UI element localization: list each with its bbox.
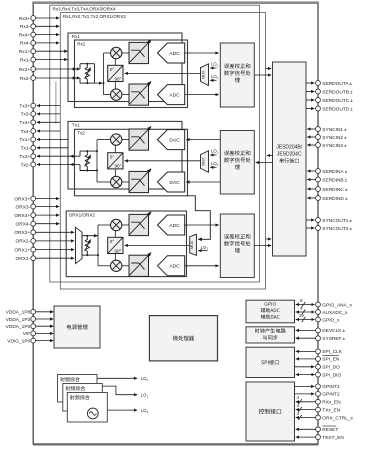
Tx2 variable attenuator bbox=[80, 150, 97, 171]
ORX I tunable filter bbox=[129, 212, 151, 236]
power management box bbox=[54, 306, 100, 348]
pin Rx2+ bbox=[31, 67, 36, 72]
wire Rx2 input jogs bbox=[79, 64, 81, 69]
pin VDDA_1P3 bbox=[31, 317, 36, 322]
pin VDDA_1P0 bbox=[31, 324, 36, 329]
pin SERDOUTD&#8201;&#177; bbox=[316, 106, 321, 111]
svg-text:SERDINA ±: SERDINA ± bbox=[322, 169, 347, 175]
wire ADC ORX Q to DSP bbox=[185, 265, 219, 267]
GPIO / aux ADC / aux DAC box bbox=[246, 300, 295, 323]
wire ADC Rx Q to DSP bbox=[185, 94, 219, 96]
wire LO3 output bbox=[107, 409, 137, 411]
Rx I tunable filter bbox=[129, 40, 151, 64]
pin Rx3+ bbox=[31, 16, 36, 21]
Tx1 channel box bbox=[68, 121, 182, 189]
svg-text:Rx2-: Rx2- bbox=[20, 76, 31, 82]
pin Rx4+ bbox=[31, 32, 36, 37]
SPI interface box bbox=[246, 347, 295, 377]
svg-text:SYNCOUT2 ±: SYNCOUT2 ± bbox=[322, 226, 352, 232]
pin Tx2- bbox=[31, 162, 36, 167]
svg-text:TXx_EN: TXx_EN bbox=[322, 407, 340, 413]
ADC Rx Q bbox=[158, 85, 185, 105]
wire DSP to DAC Tx Q bbox=[186, 181, 220, 183]
wire Tx combine junction bbox=[96, 140, 98, 182]
svg-text:Rx1+: Rx1+ bbox=[19, 49, 31, 55]
svg-text:SPI_CLK: SPI_CLK bbox=[322, 349, 343, 355]
svg-text:0°: 0° bbox=[110, 239, 115, 244]
wire Rx DSP to JESD bbox=[254, 74, 271, 76]
ADC ORX I bbox=[158, 215, 185, 235]
svg-text:ORX4-: ORX4- bbox=[16, 222, 31, 228]
svg-text:GPIO: GPIO bbox=[264, 302, 276, 308]
pin ORX1+ bbox=[31, 247, 36, 252]
pin SYNCIN3&#8201;&#177; bbox=[316, 143, 321, 148]
pin Rx1+ bbox=[31, 49, 36, 54]
DAC Tx I bbox=[158, 130, 185, 150]
svg-text:VIF: VIF bbox=[23, 331, 31, 337]
pin RXx_EN bbox=[316, 399, 321, 404]
wire LO1 output bbox=[102, 386, 137, 395]
wire vertical segment left column bbox=[55, 82, 57, 124]
pin GPIO_ANA_x bbox=[316, 302, 321, 307]
svg-text:Rx2+: Rx2+ bbox=[19, 67, 31, 73]
pin ORX2- bbox=[31, 239, 36, 244]
pin ORX3+ bbox=[31, 196, 36, 201]
pin ORX3- bbox=[31, 204, 36, 209]
pin TEST_EN bbox=[316, 435, 321, 440]
ORX I mixer bbox=[111, 219, 122, 230]
svg-text:SPI_EN: SPI_EN bbox=[322, 357, 340, 363]
wire LO3 into ORX mux bbox=[198, 250, 207, 252]
pin ORX2+ bbox=[31, 230, 36, 235]
pin SERDINC&#8201;&#177; bbox=[316, 187, 321, 192]
svg-text:SYNCOUT1 ±: SYNCOUT1 ± bbox=[322, 218, 352, 224]
svg-text:SPI_DO: SPI_DO bbox=[322, 365, 340, 371]
svg-text:90°: 90° bbox=[115, 164, 122, 169]
pin SERDINA&#8201;&#177; bbox=[316, 169, 321, 174]
svg-text:Rx1: Rx1 bbox=[72, 34, 81, 39]
svg-text:DAC: DAC bbox=[169, 137, 180, 143]
RF synthesizer box 1 bbox=[58, 375, 98, 403]
svg-text:SERDIND ±: SERDIND ± bbox=[322, 196, 348, 202]
pin SYNCOUT1&#8201;&#177; bbox=[316, 218, 321, 223]
wire Tx LO tap to ORX mux bbox=[188, 196, 211, 240]
svg-text:ADC: ADC bbox=[169, 51, 180, 57]
pin Rx4- bbox=[31, 41, 36, 46]
Tx I tunable filter bbox=[129, 126, 151, 150]
ORX variable attenuator bbox=[82, 235, 98, 256]
wire filter to mixer Tx Q bbox=[122, 181, 130, 183]
control interface box bbox=[246, 382, 295, 441]
pin RESET bbox=[316, 427, 321, 432]
svg-text:ORX3-: ORX3- bbox=[16, 204, 31, 210]
pin VDDA_1P8 bbox=[31, 309, 36, 314]
svg-text:SERDINB ±: SERDINB ± bbox=[322, 177, 347, 183]
svg-text:Tx3-: Tx3- bbox=[21, 112, 31, 118]
pin SPI_DIO bbox=[316, 372, 321, 377]
Rx2 variable attenuator bbox=[80, 63, 95, 84]
svg-text:Rx4-: Rx4- bbox=[20, 41, 31, 47]
pin SYNCIN2&#8201;&#177; bbox=[316, 135, 321, 140]
oscillator symbol bbox=[87, 408, 98, 419]
wire quad to Tx mixers bbox=[114, 145, 116, 153]
svg-text:ORX1+: ORX1+ bbox=[14, 247, 30, 253]
ORX input selector mux bbox=[76, 227, 83, 263]
ADC Rx I bbox=[158, 43, 185, 63]
svg-text:SYNCIN3 ±: SYNCIN3 ± bbox=[322, 143, 347, 149]
svg-text:ADC: ADC bbox=[169, 92, 180, 98]
svg-text:Tx2: Tx2 bbox=[77, 131, 85, 136]
svg-text:Rx1,Rx2,Tx1,Tx2,ORX1/ORX2: Rx1,Rx2,Tx1,Tx2,ORX1/ORX2 bbox=[63, 14, 126, 19]
svg-text:Tx1: Tx1 bbox=[72, 123, 80, 128]
svg-text:90°: 90° bbox=[115, 76, 122, 81]
wire Rx DSP to JESD (group) bbox=[266, 68, 272, 70]
svg-text:RESET: RESET bbox=[322, 427, 338, 433]
pin SYSREF&#8201;&#177; bbox=[316, 336, 321, 341]
svg-text:ADC: ADC bbox=[169, 223, 180, 229]
svg-text:VDIG_1P0: VDIG_1P0 bbox=[7, 338, 30, 344]
svg-text:Rx4+: Rx4+ bbox=[19, 32, 31, 38]
pin SPI_CLK bbox=[316, 349, 321, 354]
group box Rx3,Rx4,Tx3,Tx4,ORX3/ORX4 bbox=[50, 5, 260, 282]
svg-text:SERDOUTD ±: SERDOUTD ± bbox=[322, 106, 353, 112]
wire Tx2 output jogs bbox=[79, 151, 81, 156]
pin Tx1+ bbox=[31, 137, 36, 142]
Tx Q mixer bbox=[111, 176, 122, 187]
svg-text:Rx2: Rx2 bbox=[77, 41, 86, 46]
svg-text:19: 19 bbox=[299, 313, 305, 318]
pin GPINT2 bbox=[316, 392, 321, 397]
microprocessor box bbox=[149, 316, 217, 361]
wire ORX DSP to JESD (group) bbox=[266, 238, 272, 240]
svg-text:Tx2+: Tx2+ bbox=[19, 154, 30, 160]
Tx Q tunable filter bbox=[129, 169, 151, 193]
pin VDIG_1P0 bbox=[31, 338, 36, 343]
svg-text:Tx4+: Tx4+ bbox=[19, 120, 30, 126]
svg-text:0°: 0° bbox=[110, 154, 115, 159]
pin ORX1- bbox=[31, 256, 36, 261]
svg-text:VDDA_1P8: VDDA_1P8 bbox=[6, 310, 31, 316]
svg-text:Rx3-: Rx3- bbox=[20, 24, 31, 30]
clock generation and sync box bbox=[246, 327, 295, 343]
svg-text:Tx2-: Tx2- bbox=[21, 162, 31, 168]
wire LO2 output bbox=[97, 377, 137, 379]
svg-text:TEST_EN: TEST_EN bbox=[322, 435, 344, 441]
pin SERDINB&#8201;&#177; bbox=[316, 177, 321, 182]
svg-text:VDDA_1P3: VDDA_1P3 bbox=[6, 317, 31, 323]
svg-text:DAC: DAC bbox=[169, 180, 180, 186]
pin Tx1- bbox=[31, 145, 36, 150]
wire ORX I/Q split junction bbox=[97, 225, 99, 266]
svg-text:ORX2+: ORX2+ bbox=[14, 230, 30, 236]
wire LO2 into Tx mux bbox=[210, 166, 216, 168]
Tx LO mux bbox=[201, 151, 209, 173]
pin DEVCLK&#8201;&#177; bbox=[316, 328, 321, 333]
wire quad to ORX mixers bbox=[114, 230, 116, 237]
DSP block U2: error correction and digital signal processing (Tx) bbox=[220, 131, 254, 195]
Tx I mixer bbox=[111, 134, 122, 145]
pin Rx3- bbox=[31, 24, 36, 29]
ORX 0/90 quadrature splitter bbox=[108, 237, 123, 253]
wire LO to ORX quad splitter bbox=[125, 244, 190, 246]
svg-text:SYNCIN2 ±: SYNCIN2 ± bbox=[322, 135, 347, 141]
pin GPINT1 bbox=[316, 384, 321, 389]
RF synthesizer box 2 bbox=[63, 384, 103, 412]
svg-text:ORX_CTRL_x: ORX_CTRL_x bbox=[322, 415, 353, 421]
pin Tx3+ bbox=[31, 103, 36, 108]
svg-text:VDDA_1P0: VDDA_1P0 bbox=[6, 324, 31, 330]
pin Tx3- bbox=[31, 112, 36, 117]
pin ORX4+ bbox=[31, 213, 36, 218]
pin Tx2+ bbox=[31, 154, 36, 159]
DSP block U1: error correction and digital signal processing (Rx) bbox=[220, 43, 254, 107]
svg-text:DEVCLK ±: DEVCLK ± bbox=[322, 328, 345, 334]
ORX1/ORX2 channel box bbox=[66, 211, 186, 277]
group box Rx1,Rx2,Tx1,Tx2,ORX1/ORX2 bbox=[60, 13, 265, 289]
svg-text:Tx4-: Tx4- bbox=[21, 129, 31, 135]
pin SYNCOUT2&#8201;&#177; bbox=[316, 226, 321, 231]
svg-text:SYSREF ±: SYSREF ± bbox=[322, 336, 345, 342]
Rx2 channel box bbox=[75, 40, 188, 108]
wire mixer to filter ORX I bbox=[122, 224, 130, 226]
wire quad to Rx mixers bbox=[114, 58, 116, 65]
svg-text:ADC: ADC bbox=[169, 264, 180, 270]
JESD204B/JESD204C serial interface box bbox=[273, 62, 307, 256]
wire mixer to filter Rx I bbox=[122, 52, 130, 54]
svg-text:GPIO_x: GPIO_x bbox=[322, 317, 340, 323]
svg-text:SPI_DIO: SPI_DIO bbox=[322, 372, 341, 378]
wire Rx I/Q split junction bbox=[103, 53, 105, 95]
pin SERDOUTB&#8201;&#177; bbox=[316, 89, 321, 94]
wire Rx attenuator output bbox=[95, 82, 103, 84]
svg-text:MUX: MUX bbox=[202, 157, 206, 166]
wire ADC ORX I to DSP bbox=[185, 224, 219, 226]
svg-text:SERDOUTC ±: SERDOUTC ± bbox=[322, 98, 353, 104]
Rx LO mux bbox=[201, 64, 209, 86]
pin TXx_EN bbox=[316, 407, 321, 412]
pin SERDOUTC&#8201;&#177; bbox=[316, 98, 321, 103]
svg-text:Tx3+: Tx3+ bbox=[19, 103, 30, 109]
wire LO1 into Rx mux bbox=[210, 67, 216, 69]
Rx1 channel box bbox=[68, 33, 182, 102]
pin SPI_EN bbox=[316, 357, 321, 362]
Rx Q tunable filter bbox=[129, 81, 151, 105]
svg-text:Tx1-: Tx1- bbox=[21, 146, 31, 152]
wire mixer to filter ORX Q bbox=[122, 265, 130, 267]
pin VIF bbox=[31, 331, 36, 336]
svg-text:ORX2-: ORX2- bbox=[16, 239, 31, 245]
pin Rx2- bbox=[31, 76, 36, 81]
pin SERDIND&#8201;&#177; bbox=[316, 196, 321, 201]
svg-text:Rx3,Rx4,Tx3,Tx4,ORX3/ORX4: Rx3,Rx4,Tx3,Tx4,ORX3/ORX4 bbox=[53, 7, 116, 12]
ORX LO mux bbox=[190, 234, 197, 255]
wire filter to mixer Tx I bbox=[122, 139, 130, 141]
svg-text:MUX: MUX bbox=[202, 70, 206, 79]
wire LO1 into Tx mux bbox=[210, 154, 216, 156]
svg-text:SERDINC ±: SERDINC ± bbox=[322, 187, 348, 193]
svg-text:0°: 0° bbox=[110, 67, 115, 72]
Tx 0/90 quadrature splitter bbox=[108, 153, 123, 169]
svg-text:Rx3+: Rx3+ bbox=[19, 16, 31, 22]
chip outline bbox=[33, 3, 318, 444]
svg-text:MUX: MUX bbox=[190, 240, 194, 249]
wire DSP to DAC Tx I bbox=[186, 139, 220, 141]
wire LO to Rx quad splitter bbox=[125, 72, 201, 74]
svg-text:ORX4+: ORX4+ bbox=[14, 213, 30, 219]
Tx2 channel box bbox=[75, 129, 188, 196]
Rx I mixer bbox=[111, 47, 122, 58]
svg-text:SERDOUTA ±: SERDOUTA ± bbox=[322, 81, 352, 87]
svg-text:RXx_EN: RXx_EN bbox=[322, 400, 341, 406]
pin Rx1- bbox=[31, 57, 36, 62]
wire LO to Tx quad splitter bbox=[125, 160, 201, 162]
Rx Q mixer bbox=[111, 89, 122, 100]
svg-text:GPINT1: GPINT1 bbox=[322, 384, 340, 390]
svg-text:ORX3+: ORX3+ bbox=[14, 196, 30, 202]
svg-text:ORX1/ORX2: ORX1/ORX2 bbox=[69, 213, 96, 218]
pin SPI_DO bbox=[316, 364, 321, 369]
wire JESD to Tx DSP bbox=[256, 162, 273, 164]
pin GPIO_x bbox=[316, 317, 321, 322]
pin ORX4- bbox=[31, 221, 36, 226]
pin SYNCIN1&#8201;&#177; bbox=[316, 127, 321, 132]
DAC Tx Q bbox=[158, 172, 185, 192]
ORX Q mixer bbox=[111, 260, 122, 271]
svg-text:90°: 90° bbox=[115, 248, 122, 253]
ORX Q tunable filter bbox=[129, 253, 151, 277]
svg-text:JESD204B/JESD204C: JESD204B/JESD204C bbox=[276, 145, 302, 158]
svg-text:SERDOUTB ±: SERDOUTB ± bbox=[322, 89, 353, 95]
svg-text:ORX1-: ORX1- bbox=[16, 256, 31, 262]
pin ORX_CTRL_x bbox=[316, 415, 321, 420]
wire ADC Rx I to DSP bbox=[185, 52, 219, 54]
wire ORX mux to attenuator bbox=[81, 236, 83, 255]
wire mixer to filter Rx Q bbox=[122, 94, 130, 96]
svg-text:Tx1+: Tx1+ bbox=[19, 137, 30, 143]
wire LO2 into Rx mux bbox=[210, 79, 216, 81]
svg-text:GPINT2: GPINT2 bbox=[322, 392, 340, 398]
pin AUXADC_x bbox=[316, 310, 321, 315]
pin Tx4- bbox=[31, 129, 36, 134]
wire JESD to Tx DSP (group) bbox=[267, 155, 273, 157]
svg-text:AUXADC_x: AUXADC_x bbox=[322, 310, 348, 316]
wire ORX DSP to JESD bbox=[254, 245, 271, 247]
pin SERDOUTA&#8201;&#177; bbox=[316, 81, 321, 86]
pin Tx4+ bbox=[31, 120, 36, 125]
ADC ORX Q bbox=[158, 256, 185, 276]
svg-text:Rx1-: Rx1- bbox=[20, 57, 31, 63]
Rx 0/90 quadrature splitter bbox=[108, 65, 123, 81]
svg-text:SYNCIN1 ±: SYNCIN1 ± bbox=[322, 127, 347, 133]
DSP block U3: error correction and digital signal processing (ORX) bbox=[220, 214, 254, 278]
svg-text:GPIO_ANA_x: GPIO_ANA_x bbox=[322, 302, 352, 308]
RF synthesizer box 3 bbox=[67, 393, 107, 423]
